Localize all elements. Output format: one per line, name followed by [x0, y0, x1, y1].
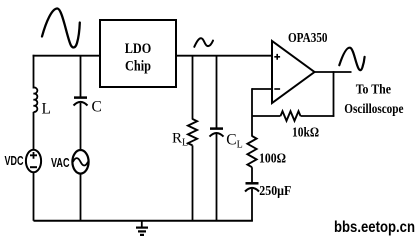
- wire RL branch from top rail: [192, 56, 194, 120]
- wire CL to ground rail: [216, 134, 218, 221]
- VDC minus marker: [30, 166, 37, 168]
- wire LDO output to op-amp plus input: [176, 55, 272, 57]
- capacitor C2 250uF: [245, 183, 259, 191]
- inductor L: [34, 87, 38, 112]
- op-amp minus input marker: [274, 88, 280, 90]
- svg-text:To The: To The: [356, 83, 391, 98]
- wire VAC to ground rail: [80, 174, 82, 221]
- resistor RL: [188, 119, 197, 145]
- svg-text:LDO: LDO: [125, 41, 152, 57]
- wire feedback row left: [252, 115, 281, 117]
- resistor R3 100 ohm: [247, 136, 256, 167]
- output sine wave: [339, 48, 364, 70]
- wire CL branch from top rail: [216, 56, 218, 128]
- wire 100 ohm to 250uF cap: [251, 167, 253, 182]
- output wire: [314, 71, 352, 73]
- svg-text:VAC: VAC: [51, 155, 70, 170]
- svg-text:OPA350: OPA350: [288, 30, 328, 45]
- LDO output sine symbol: [194, 38, 213, 47]
- svg-text:C: C: [92, 99, 102, 116]
- wire VDC to ground rail: [33, 172, 35, 221]
- wire left branch to inductor: [33, 55, 35, 89]
- op-amp U1 OPA350 triangle: [272, 41, 315, 103]
- ac source VAC circle: [72, 150, 88, 174]
- LDO chip box U1: [100, 20, 176, 87]
- op-amp plus input marker: [274, 54, 280, 60]
- svg-text:VDC: VDC: [5, 153, 24, 168]
- wire RL to ground rail: [192, 145, 194, 220]
- capacitor CL: [210, 129, 224, 137]
- svg-text:100Ω: 100Ω: [259, 152, 286, 167]
- svg-text:Oscilloscope: Oscilloscope: [344, 102, 403, 117]
- dc source VDC circle: [26, 150, 41, 173]
- resistor R2 10k: [281, 111, 301, 121]
- ground symbol: [136, 221, 148, 235]
- svg-text:L: L: [42, 101, 51, 118]
- wire C branch from top rail: [80, 56, 82, 97]
- wire top input rail: [33, 55, 100, 57]
- To The Oscilloscope label: [344, 83, 403, 118]
- wire feedback up to output: [333, 71, 335, 117]
- input sine wave: [42, 8, 80, 47]
- wire minus node down to feedback row: [251, 88, 253, 136]
- svg-text:RL: RL: [172, 131, 188, 149]
- svg-text:CL: CL: [226, 132, 242, 151]
- svg-text:Chip: Chip: [125, 59, 151, 75]
- VAC sine marker: [73, 158, 88, 165]
- wire 250uF cap to ground rail: [251, 189, 253, 221]
- capacitor C: [74, 98, 88, 106]
- VDC plus marker: [30, 152, 37, 159]
- wire minus input: [252, 88, 272, 90]
- ground rail: [34, 220, 253, 222]
- svg-text:10kΩ: 10kΩ: [292, 126, 319, 141]
- wire inductor to VDC: [33, 112, 35, 151]
- svg-text:250µF: 250µF: [259, 184, 291, 199]
- LDO chip label: [125, 41, 152, 75]
- wire feedback row right: [301, 115, 335, 117]
- svg-text:bbs.eetop.cn: bbs.eetop.cn: [334, 219, 415, 236]
- wire C to VAC: [80, 103, 82, 151]
